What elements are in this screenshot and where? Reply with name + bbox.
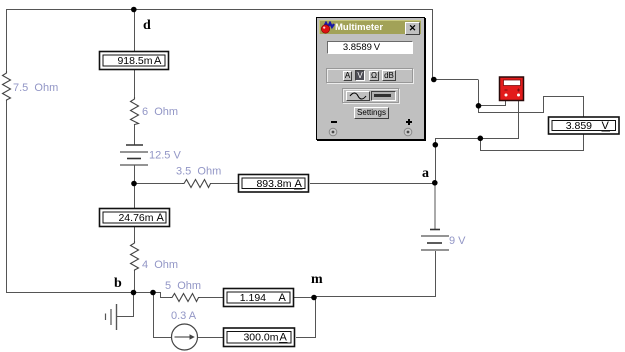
wire bottom left horizontal to b <box>6 292 134 294</box>
svg-text:300.0m: 300.0m <box>243 332 278 344</box>
ammeter 300.0mA box <box>224 328 295 347</box>
button dB <box>382 70 396 81</box>
node m junction dot <box>311 295 317 301</box>
wire node2 to 5 Ohm with jog <box>153 293 170 298</box>
mode frame <box>326 68 413 83</box>
voltmeter 3.859 V box <box>549 117 620 134</box>
wire horizontal A3 net <box>435 138 519 140</box>
ammeter 918.5mA box <box>100 52 169 70</box>
minus label <box>331 121 337 123</box>
wire ammeter to 6 Ohm <box>134 70 136 97</box>
plus terminal <box>403 127 413 137</box>
resistor R 6 Ohm <box>131 97 139 125</box>
battery V1 12.5V plate short top <box>126 144 143 146</box>
wire 5 Ohm to ammeter 1.194 <box>200 297 223 299</box>
node junction dot mid <box>131 181 137 187</box>
multimeter icon XMM red <box>500 77 524 101</box>
display 3.8589 V <box>327 41 413 54</box>
wire node to ammeter 24.76 <box>134 184 136 209</box>
wire A2 to red icon left pin <box>478 100 506 106</box>
wire left vertical lower <box>6 101 8 292</box>
svg-text:b: b <box>114 276 122 291</box>
svg-text:5 Ohm: 5 Ohm <box>165 280 201 292</box>
wire A1 riser to top net <box>432 9 434 80</box>
resistor R 4 Ohm <box>131 241 139 271</box>
wire node b down to ground <box>133 292 135 316</box>
wire 3.5 Ohm to ammeter 893.8 <box>211 183 238 185</box>
wave frame <box>342 88 399 103</box>
wire node2 down to current source <box>153 292 155 337</box>
svg-text:918.5m: 918.5m <box>117 55 152 67</box>
svg-text:6 Ohm: 6 Ohm <box>142 106 178 118</box>
battery V2 long plate 1 <box>421 235 449 237</box>
wire node m to battery 9V corner <box>314 251 436 297</box>
wire node b to node2 <box>134 292 153 294</box>
svg-text:A: A <box>280 332 288 344</box>
node A2 junction dot <box>476 103 482 109</box>
wire A3 to voltmeter bottom <box>480 134 584 151</box>
wire main vertical d to ammeter <box>134 9 136 51</box>
multimeter instrument window <box>316 17 425 140</box>
wire ground lead <box>116 316 134 318</box>
wire ammeter 300.0 to node m riser <box>296 297 316 338</box>
settings button <box>354 107 389 119</box>
plus label <box>406 119 412 125</box>
minus terminal <box>328 127 338 137</box>
battery V1 long plate 2 <box>120 164 148 166</box>
svg-text:A: A <box>279 292 287 304</box>
battery V2 short plate 2 <box>427 242 442 244</box>
node A1 junction dot <box>431 77 437 83</box>
wire left vertical upper <box>6 9 8 71</box>
svg-text:0.3 A: 0.3 A <box>171 310 197 322</box>
svg-text:24.76m: 24.76m <box>118 212 153 224</box>
svg-text:A: A <box>154 55 162 67</box>
svg-text:7.5 Ohm: 7.5 Ohm <box>13 82 58 94</box>
wire ammeter 1.194 to node m <box>294 297 314 299</box>
svg-text:1.194: 1.194 <box>240 292 266 304</box>
ammeter 1.194 A box <box>224 289 294 307</box>
wire ammeter 24.76 to 4 Ohm <box>134 227 136 241</box>
node A3 junction dot <box>478 136 484 142</box>
resistor R 3.5 Ohm <box>182 180 211 188</box>
wire current source to ammeter 300.0 <box>198 337 224 339</box>
wire node to 3.5 Ohm <box>134 183 182 185</box>
wire ammeter 893.8 to node a <box>310 183 435 185</box>
svg-text:3.5 Ohm: 3.5 Ohm <box>176 166 221 178</box>
button A <box>343 71 352 81</box>
node2 junction dot <box>150 290 156 296</box>
sine button <box>346 91 370 101</box>
current source I1 0.3A <box>172 324 198 350</box>
wire battery 9V top to node a <box>434 183 436 229</box>
wire 4 Ohm to node b <box>134 271 136 292</box>
title bar <box>319 20 421 34</box>
wire to current source left <box>153 337 172 339</box>
svg-text:4 Ohm: 4 Ohm <box>142 259 178 271</box>
wire node a riser to A4 <box>435 138 437 183</box>
svg-text:V: V <box>602 120 610 132</box>
resistor R 5 Ohm <box>170 294 200 302</box>
svg-text:893.8m: 893.8m <box>256 178 291 190</box>
svg-text:d: d <box>143 18 151 33</box>
wire top horizontal d-net <box>6 9 432 11</box>
button V pressed <box>355 70 365 81</box>
resistor R 7.5 Ohm <box>3 71 11 101</box>
ground symbol <box>106 304 117 330</box>
battery V1 short plate 2 <box>127 158 141 160</box>
node A4 junction dot <box>433 142 439 148</box>
battery V1 long plate 1 <box>120 151 148 153</box>
wire battery to node <box>134 165 136 184</box>
svg-text:9 V: 9 V <box>449 235 466 247</box>
wire A2 riser to A1 <box>433 80 479 107</box>
svg-text:A: A <box>157 212 165 224</box>
node a junction dot <box>432 180 438 186</box>
wire red icon right pin down <box>518 100 520 138</box>
node d junction dot <box>131 7 137 13</box>
wire A2 to voltmeter top <box>478 97 584 118</box>
battery V2 9V short plate top <box>430 229 440 231</box>
node b junction dot <box>131 290 137 296</box>
title icon <box>321 21 337 34</box>
ammeter 893.8mA box <box>239 175 309 193</box>
svg-text:m: m <box>311 272 323 287</box>
svg-text:12.5 V: 12.5 V <box>149 150 181 162</box>
battery V2 long plate 2 <box>421 249 449 251</box>
svg-text:A: A <box>295 178 303 190</box>
ammeter 24.76mA box <box>100 209 170 227</box>
button Ohm <box>369 71 379 81</box>
dc button pressed <box>371 91 396 101</box>
svg-text:3.859: 3.859 <box>566 120 592 132</box>
wire 6 Ohm to battery <box>134 125 136 145</box>
svg-text:a: a <box>422 166 429 181</box>
